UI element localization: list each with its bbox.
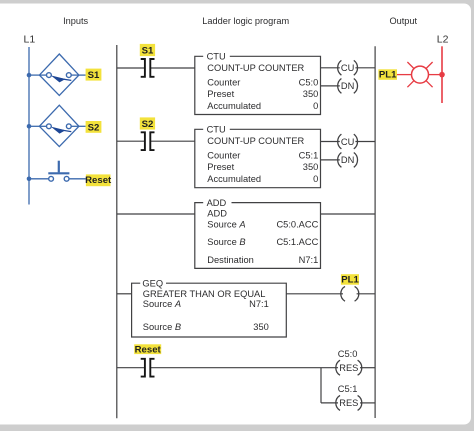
CTU2 box	[195, 129, 321, 187]
S1 contact circles	[47, 73, 52, 78]
rung4 wire left	[117, 293, 132, 295]
svg-text:RES: RES	[339, 363, 358, 373]
svg-text:Ladder logic program: Ladder logic program	[202, 16, 289, 26]
ladder right rail	[374, 46, 376, 418]
wire PL1 coil to rail	[357, 293, 376, 295]
rung1 wire left	[117, 67, 145, 69]
rung5 wire left	[117, 367, 145, 369]
svg-text:Source A: Source A	[207, 219, 245, 229]
contact S2 (XIC)	[141, 132, 155, 150]
wire Reset to label	[69, 178, 86, 180]
lamp ray NW	[407, 62, 414, 69]
svg-text:GREATER THAN OR EQUAL: GREATER THAN OR EQUAL	[143, 289, 266, 299]
svg-text:Output: Output	[390, 16, 418, 26]
svg-text:RES: RES	[339, 398, 358, 408]
rung2 wire left	[117, 140, 145, 142]
coil RES2	[336, 395, 362, 410]
svg-text:COUNT-UP COUNTER: COUNT-UP COUNTER	[207, 136, 304, 146]
svg-text:0: 0	[313, 174, 318, 184]
svg-text:ADD: ADD	[207, 198, 227, 208]
wire CTU2 to DN coil	[321, 159, 340, 161]
svg-text:DN: DN	[341, 155, 354, 165]
svg-text:CTU: CTU	[207, 52, 226, 62]
rung label PL1	[341, 274, 360, 285]
svg-text:CTU: CTU	[207, 125, 226, 135]
svg-text:Destination: Destination	[207, 255, 254, 265]
junction dot rail-Reset	[27, 177, 32, 182]
wire rail to Reset button	[29, 178, 49, 180]
svg-text:Source A: Source A	[143, 299, 181, 309]
limit switch S1 diamond	[39, 54, 79, 95]
wire RES2 to rail	[360, 402, 375, 404]
wire CTU2 to CU coil	[321, 141, 340, 143]
input label Reset	[85, 174, 112, 186]
lamp ray SE	[426, 81, 433, 88]
ladder left rail	[116, 45, 118, 418]
svg-text:Reset: Reset	[85, 175, 112, 186]
input label S1	[86, 69, 102, 82]
coil DN rung1	[338, 79, 358, 94]
rung2 wire contact to CTU2	[151, 140, 195, 142]
svg-text:DN: DN	[341, 81, 354, 91]
svg-text:L2: L2	[437, 34, 449, 46]
coil DN rung2	[338, 153, 358, 168]
svg-text:CU: CU	[341, 63, 354, 73]
GEQ box	[132, 283, 287, 337]
svg-text:CU: CU	[341, 137, 354, 147]
rung label Reset	[134, 344, 161, 355]
svg-text:Accumulated: Accumulated	[207, 101, 261, 111]
svg-text:Preset: Preset	[207, 162, 234, 172]
wire lamp to rail	[428, 74, 442, 76]
branch vertical	[320, 368, 322, 403]
contact S1 (XIC)	[141, 59, 155, 77]
svg-text:0: 0	[313, 101, 318, 111]
Reset pushbutton circles	[49, 176, 54, 181]
output label PL1	[378, 69, 397, 80]
svg-text:Accumulated: Accumulated	[207, 174, 261, 184]
svg-text:350: 350	[303, 89, 319, 99]
svg-text:C5:1: C5:1	[338, 384, 358, 394]
wire rail to S1	[29, 74, 39, 76]
svg-text:Counter: Counter	[207, 78, 240, 88]
wire CTU1 to DN coil	[321, 85, 340, 87]
coil CU rung1	[338, 60, 358, 75]
S1 lever wedge	[51, 75, 66, 82]
svg-text:Counter: Counter	[207, 151, 240, 161]
wire RES1 to rail	[360, 367, 375, 369]
limit switch S2 diamond	[39, 105, 79, 146]
power rail L2 (red)	[441, 46, 443, 103]
svg-text:Preset: Preset	[207, 89, 234, 99]
svg-text:Source B: Source B	[207, 237, 245, 247]
S2 contact circles	[47, 124, 52, 129]
wire inside S2 right	[71, 125, 79, 127]
wire PL1 label to lamp	[397, 74, 412, 76]
rung label S2	[140, 117, 155, 129]
svg-text:GEQ: GEQ	[142, 278, 163, 288]
svg-text:N7:1: N7:1	[249, 299, 269, 309]
svg-text:350: 350	[253, 322, 269, 332]
svg-text:S1: S1	[88, 70, 100, 81]
Reset pushbutton stem	[58, 161, 60, 173]
rung5 wire contact to RES	[151, 367, 338, 369]
rung1 wire contact to CTU1	[151, 67, 195, 69]
wire CU coil to rail	[355, 67, 375, 69]
svg-text:C5:1: C5:1	[299, 151, 319, 161]
contact Reset (XIC)	[141, 359, 155, 377]
svg-text:COUNT-UP COUNTER: COUNT-UP COUNTER	[207, 63, 304, 73]
svg-text:C5:0: C5:0	[299, 78, 319, 88]
svg-text:S2: S2	[88, 122, 100, 133]
power rail L1 (blue)	[28, 47, 30, 205]
pilot lamp PL1 circle	[412, 66, 429, 83]
svg-text:Source B: Source B	[143, 322, 181, 332]
input label S2	[86, 121, 102, 133]
lamp ray SW	[407, 81, 414, 88]
wire GEQ to PL1 coil	[286, 293, 343, 295]
svg-text:C5:1.ACC: C5:1.ACC	[276, 237, 318, 247]
rung label S1	[140, 44, 155, 57]
branch wire to RES2	[321, 402, 338, 404]
junction dot rail-S2	[27, 124, 32, 129]
Reset pushbutton bar	[48, 172, 69, 174]
junction dot lamp-rail	[439, 72, 445, 78]
svg-text:Inputs: Inputs	[63, 16, 88, 26]
svg-text:S1: S1	[142, 45, 154, 56]
svg-text:C5:0: C5:0	[338, 349, 358, 359]
svg-text:ADD: ADD	[207, 209, 227, 219]
wire inside S1 left	[39, 74, 46, 76]
lamp ray NE	[426, 62, 433, 69]
svg-text:C5:0.ACC: C5:0.ACC	[276, 219, 318, 229]
coil RES1	[336, 360, 362, 375]
svg-text:PL1: PL1	[341, 275, 359, 286]
S2 lever wedge	[51, 127, 66, 134]
wire S1 to label	[79, 74, 86, 76]
svg-text:350: 350	[303, 162, 319, 172]
wire inside S1 right	[71, 74, 79, 76]
ADD box	[195, 203, 321, 269]
rung3 wire left	[117, 213, 195, 215]
coil CU rung2	[338, 134, 358, 149]
svg-text:N7:1: N7:1	[299, 255, 319, 265]
svg-text:L1: L1	[24, 34, 36, 46]
S2 lever	[59, 130, 71, 132]
wire inside S2 left	[39, 125, 46, 127]
wire S2 to label	[79, 125, 86, 127]
svg-text:S2: S2	[142, 119, 154, 130]
CTU1 box	[195, 56, 321, 114]
coil PL1	[341, 286, 359, 301]
wire CTU1 to CU coil	[321, 67, 340, 69]
junction dot rail-S1	[27, 73, 32, 78]
wire rail to S2	[29, 125, 39, 127]
wire ADD to rail	[321, 213, 376, 215]
svg-text:PL1: PL1	[379, 70, 397, 81]
S1 lever	[59, 79, 71, 81]
svg-text:Reset: Reset	[135, 344, 162, 355]
wire CU2 coil to rail	[355, 141, 375, 143]
